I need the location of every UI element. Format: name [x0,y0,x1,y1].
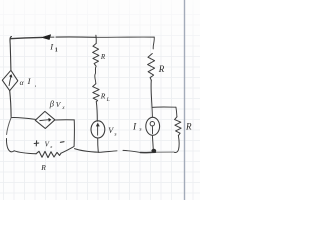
svg-text:s: s [114,131,116,137]
svg-text:R: R [100,53,106,61]
svg-text:I: I [132,122,137,132]
svg-text:R: R [185,122,192,132]
svg-text:x: x [49,144,52,149]
svg-text:R: R [100,91,106,100]
svg-text:V: V [108,126,114,135]
svg-text:V: V [45,140,50,148]
svg-text:α: α [20,78,25,87]
svg-text:L: L [106,97,110,103]
svg-text:1: 1 [55,48,58,54]
svg-text:s: s [139,127,141,133]
svg-text:R: R [40,163,46,172]
svg-text:,: , [35,82,37,88]
svg-text:R: R [158,64,165,74]
svg-text:β: β [49,99,55,109]
svg-text:V: V [56,100,62,109]
svg-text:I: I [49,42,54,52]
